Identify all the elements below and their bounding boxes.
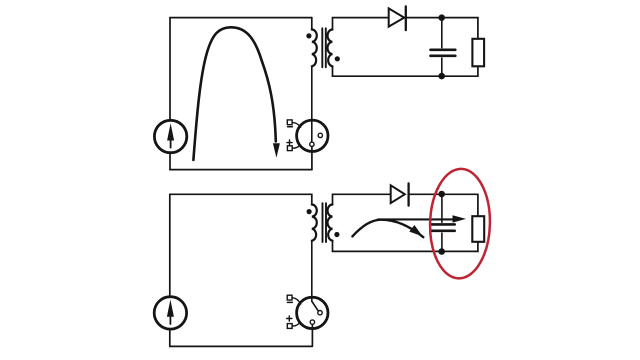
label minus	[288, 126, 293, 128]
wire: left rail upper segment	[169, 194, 171, 296]
label plus	[287, 316, 292, 321]
label minus	[288, 301, 293, 303]
node: top junction	[438, 191, 445, 198]
probe pin (upper right)	[318, 133, 322, 137]
transformer T2 core	[323, 203, 327, 242]
wire: secondary top lead	[333, 18, 389, 30]
transformer T1 polarity dot (primary)	[306, 33, 311, 38]
probe body circle	[297, 297, 328, 328]
probe terminal square (minus)	[287, 295, 292, 300]
wire: bottom rail of primary loop	[170, 345, 312, 347]
wire: top rail of primary loop	[170, 17, 312, 19]
diode D1	[389, 6, 406, 30]
probe terminal square (plus)	[287, 324, 292, 329]
wire: right rail top segment	[311, 194, 313, 204]
lead from plus terminal to probe body	[292, 322, 300, 326]
probe terminal square (plus)	[287, 146, 292, 151]
node: bottom junction	[438, 73, 445, 80]
resistor R1	[472, 39, 484, 67]
probe body circle	[297, 120, 328, 151]
wire: right rail below probe	[311, 147, 313, 170]
wire: resistor bottom lead	[477, 66, 479, 76]
capacitor C1	[431, 18, 456, 77]
wire: secondary top rail (diode to resistor branch)	[406, 17, 478, 19]
wire: bottom rail of primary loop	[170, 169, 312, 171]
wire: right rail top segment	[311, 18, 313, 30]
wire: left rail lower segment	[169, 329, 171, 346]
node: top junction	[438, 14, 445, 21]
wire: secondary top rail (diode to resistor branch)	[409, 193, 478, 195]
wire: top rail of primary loop	[170, 193, 312, 195]
output arrow (toward load resistor)	[378, 215, 466, 222]
transformer T1 core	[322, 28, 326, 67]
wire: resistor top lead	[477, 18, 479, 39]
current source I1	[154, 120, 186, 152]
transformer T1 polarity dot (secondary)	[335, 56, 340, 61]
lead from plus terminal to probe body	[292, 145, 300, 148]
wire: left rail upper segment	[169, 18, 171, 121]
probe pin (bottom)	[310, 142, 314, 146]
probe pin (upper right)	[318, 311, 322, 315]
wire: secondary bottom lead from winding	[332, 241, 334, 252]
probe terminal square (minus)	[287, 120, 292, 125]
label plus	[287, 140, 292, 145]
wire: secondary bottom lead from winding	[332, 66, 334, 76]
flux arrow (large arc inside primary loop)	[193, 27, 280, 160]
wire: resistor bottom lead	[477, 242, 479, 252]
wire: secondary top lead	[333, 194, 391, 204]
transformer T2 secondary winding	[328, 205, 333, 241]
oscilloscope probe connector P2	[287, 295, 328, 328]
wire: right rail between transformer and probe	[311, 66, 313, 142]
current source I2	[154, 297, 186, 329]
node: bottom junction	[438, 248, 445, 255]
transformer T1 secondary winding	[328, 30, 333, 67]
resistor R2	[472, 216, 484, 242]
wire: right rail between transformer and probe (bends to pin)	[312, 241, 319, 311]
wire: right rail below probe	[311, 324, 313, 346]
wire: resistor top lead	[477, 194, 479, 216]
lead from minus terminal to probe body	[292, 122, 300, 127]
lead from minus terminal to probe body	[292, 298, 300, 305]
transformer T1 primary winding	[312, 30, 317, 67]
transformer T2 polarity dot (primary)	[307, 209, 312, 214]
diode D2	[391, 183, 409, 205]
wire: left rail lower segment	[169, 153, 171, 170]
red highlight ellipse around output	[429, 168, 492, 279]
oscilloscope probe connector P1	[287, 120, 328, 152]
wire: secondary bottom rail	[333, 250, 478, 252]
curved current arrow (hop into capacitor)	[352, 220, 423, 238]
probe pin (bottom)	[310, 320, 314, 324]
transformer T2 polarity dot (secondary)	[334, 232, 339, 237]
wire: secondary bottom rail	[333, 75, 478, 77]
transformer T2 primary winding	[312, 205, 317, 241]
capacitor C2	[430, 194, 454, 251]
